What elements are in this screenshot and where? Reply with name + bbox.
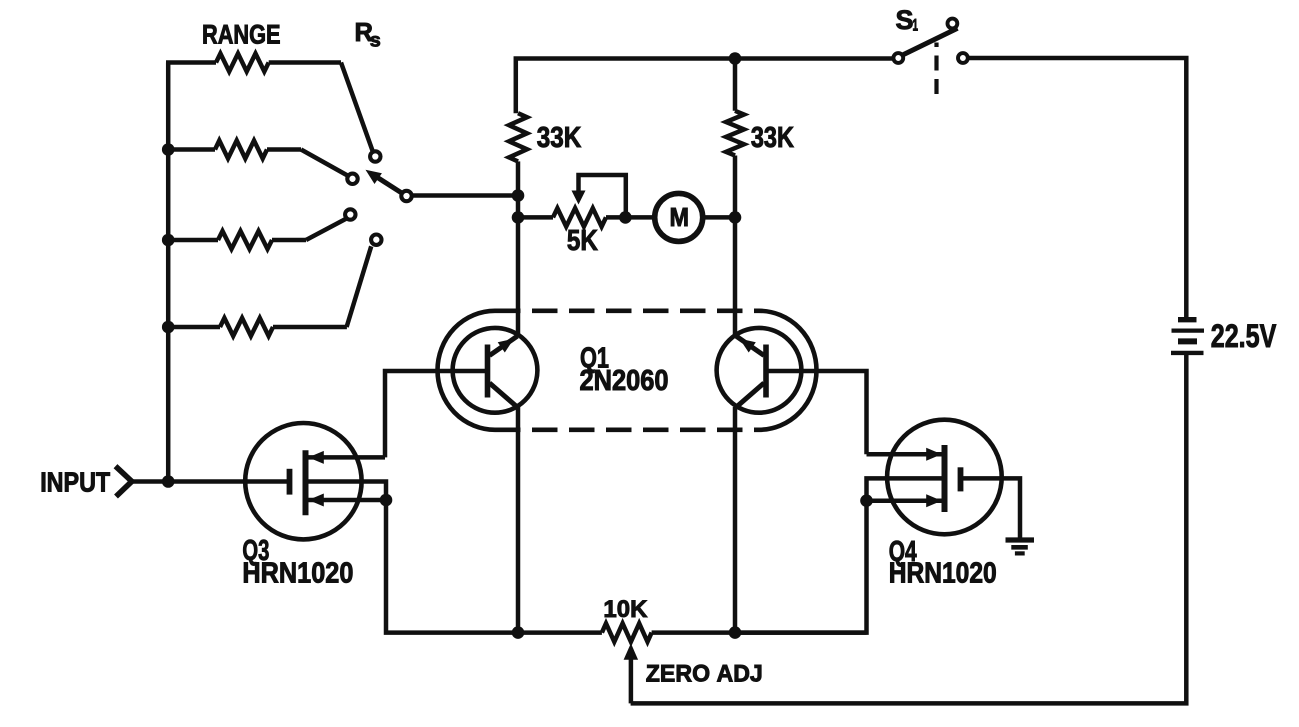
label 5K: [567, 225, 598, 257]
switch S1 right contact: [958, 53, 968, 63]
potentiometer 10K wiper: [624, 643, 639, 703]
transistor Q3 bulk lead: [308, 482, 386, 501]
transistor Q3 circle: [245, 423, 361, 539]
node B pot junction: [512, 211, 525, 224]
wire meter to node C: [703, 215, 735, 220]
switch Rs contact 3: [345, 209, 355, 219]
label HRN1020 left: [242, 558, 353, 590]
wire range 4 to switch contact: [347, 246, 372, 327]
resistor range 2: [168, 141, 301, 159]
svg-text:33K: 33K: [537, 122, 582, 154]
label ZERO ADJ: [646, 660, 763, 687]
label INPUT: [40, 466, 110, 498]
switch Rs contact 4: [371, 235, 381, 245]
transistor Q4 drain lead: [867, 448, 942, 461]
potentiometer 5K: [553, 208, 625, 226]
wire bottom rail left: [518, 630, 602, 635]
node bottom rail left: [512, 626, 525, 639]
transistor Q4 bulk lead: [867, 478, 942, 500]
wire node C down to Q1b: [733, 217, 738, 336]
wire wiper to node A: [411, 193, 518, 198]
label HRN1020 right: [889, 557, 997, 589]
resistor range 3: [168, 231, 306, 249]
transistor Q1b collector: [736, 383, 765, 408]
node Q4 source junction: [860, 494, 873, 507]
resistor 33K right: [726, 59, 744, 218]
svg-text:HRN1020: HRN1020: [889, 557, 997, 589]
wire Q4 gate to ground: [963, 478, 1020, 540]
wire range 3 to switch contact: [306, 219, 347, 241]
svg-text:5K: 5K: [567, 225, 598, 257]
transistor Q3 source lead: [308, 494, 386, 507]
meter M: [655, 193, 703, 241]
wire Q3 source to bottom rail: [386, 500, 518, 633]
svg-text:1: 1: [913, 17, 919, 35]
transistor Q4 channel bar: [942, 445, 948, 512]
transistor Q4 circle: [887, 420, 1002, 535]
transistor Q3 gate bar: [287, 469, 293, 495]
resistor 33K left: [509, 113, 527, 196]
label Q3: [242, 535, 269, 567]
svg-text:10K: 10K: [603, 596, 647, 623]
svg-text:s: s: [370, 31, 381, 52]
switch Rs wiper pole: [401, 191, 411, 201]
svg-text:2N2060: 2N2060: [580, 365, 669, 397]
label 22.5V: [1211, 318, 1277, 354]
transistor Q1a circle: [453, 328, 538, 413]
switch S1 dashed actuator: [934, 43, 938, 96]
input connector: [116, 466, 132, 496]
switch Rs wiper arm: [366, 170, 404, 194]
svg-text:M: M: [670, 202, 690, 232]
svg-text:RANGE: RANGE: [202, 19, 281, 49]
wire Q4 source to bottom rail: [735, 501, 867, 633]
label 2N2060: [580, 365, 669, 397]
wire S1 to battery corner: [969, 58, 1187, 317]
label S1: [896, 5, 919, 35]
label Q1: [580, 343, 609, 375]
label 10K: [603, 596, 647, 623]
transistor Q3 drain lead: [308, 451, 385, 464]
wire Q1a collector down: [516, 407, 521, 633]
node C meter junction: [729, 211, 742, 224]
svg-text:33K: 33K: [751, 122, 794, 154]
node A wiper junction: [512, 189, 525, 217]
switch Rs contact 2: [347, 174, 357, 184]
wire node B to 5K: [518, 215, 553, 220]
label 33K right: [751, 122, 794, 154]
svg-text:22.5V: 22.5V: [1211, 318, 1277, 354]
node top rail right: [729, 52, 742, 65]
label Rs: [355, 19, 381, 52]
wire Q1a base to Q3 drain: [385, 371, 487, 457]
svg-text:INPUT: INPUT: [40, 466, 110, 498]
transistor Q4 gate bar: [958, 467, 964, 491]
transistor Q1 envelope arc right: [759, 311, 817, 430]
node range 4: [162, 321, 175, 334]
transistor Q1 envelope dashed bottom: [495, 427, 759, 432]
label Q4: [889, 536, 917, 568]
switch S1 pivot contact: [893, 53, 903, 63]
transistor Q1 envelope dashed top: [495, 308, 759, 313]
node range 3: [162, 234, 175, 247]
transistor Q4 source lead: [867, 494, 942, 507]
resistor range 4: [168, 318, 347, 336]
svg-text:S: S: [896, 5, 914, 35]
label RANGE: [202, 19, 281, 49]
wire node B down to Q1a: [516, 217, 521, 336]
wire Q1b base to Q4 drain: [768, 371, 867, 454]
node bottom rail Q1b: [729, 626, 742, 639]
node 5K wiper junction: [619, 211, 632, 224]
transistor Q1b base bar: [763, 345, 769, 398]
wire top rail left: [516, 59, 893, 114]
node Q3 source junction: [380, 494, 393, 507]
node input junction: [162, 475, 175, 488]
wire range 2 to switch contact: [301, 150, 348, 176]
label 33K left: [537, 122, 582, 154]
wire Q1b collector down: [733, 407, 738, 633]
transistor Q1b emitter: [736, 336, 764, 355]
switch S1 throw contact: [948, 19, 958, 29]
transistor Q1a emitter: [490, 336, 518, 355]
wire 5K to meter: [625, 215, 655, 220]
wire input bus: [166, 63, 171, 482]
node range 2: [162, 143, 175, 156]
wire range 1 to switch contact: [341, 63, 373, 152]
transistor Q1a base bar: [485, 345, 491, 398]
transistor Q3 channel bar: [303, 450, 309, 515]
transistor Q1b circle: [717, 328, 802, 413]
potentiometer 10K: [602, 623, 652, 641]
svg-text:HRN1020: HRN1020: [242, 558, 353, 590]
svg-text:ZERO ADJ: ZERO ADJ: [646, 660, 763, 687]
wire battery to bottom corner: [631, 355, 1187, 703]
transistor Q1a collector: [490, 383, 519, 408]
resistor range 1: [166, 54, 341, 72]
ground: [1006, 540, 1035, 553]
battery 22.5V: [1171, 320, 1204, 353]
switch S1 blade: [903, 28, 958, 55]
transistor Q1 envelope arc left: [437, 311, 495, 430]
potentiometer 5K wiper: [572, 175, 626, 217]
switch Rs contact 1: [370, 151, 380, 161]
wire input to Q3 gate: [131, 479, 288, 484]
wire bottom rail right: [652, 630, 867, 635]
